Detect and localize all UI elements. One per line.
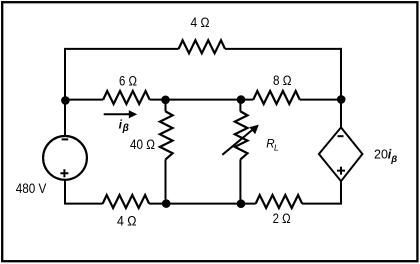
resistor 6Ω (103, 91, 149, 104)
plus sign in diamond (337, 167, 345, 175)
wire middle-center segment (150, 99, 254, 101)
wire RL branch upper lead (239, 100, 241, 112)
node dot 40Ω top (161, 96, 170, 105)
RL variable arrow (222, 125, 258, 155)
current arrow i_beta (104, 110, 138, 118)
wire top-right segment (225, 48, 341, 50)
svg-text:2 Ω: 2 Ω (273, 211, 291, 226)
node dot 40Ω bottom (162, 199, 171, 208)
wire 40Ω branch upper lead (165, 100, 167, 112)
dependent source 20i_beta diamond (319, 127, 363, 181)
resistor 2Ω (256, 195, 302, 208)
svg-text:β: β (390, 154, 397, 165)
resistor 4Ω bottom (103, 195, 149, 208)
wire left vertical upper (64, 48, 66, 136)
wire middle-left lead (65, 99, 103, 101)
label R_L (266, 139, 279, 153)
node dot RL bottom (237, 199, 246, 208)
svg-text:4 Ω: 4 Ω (117, 214, 137, 229)
resistor 40Ω (160, 111, 173, 159)
voltage source 480V circle (43, 136, 87, 180)
wire right vertical upper (340, 48, 342, 128)
node dot right-middle (337, 95, 346, 104)
svg-text:β: β (122, 123, 129, 134)
resistor RL variable (235, 111, 248, 159)
wire top-left segment (65, 48, 179, 50)
wire bottom-right segment (302, 203, 342, 205)
svg-text:L: L (274, 142, 279, 152)
plus sign in source (60, 169, 68, 177)
label 20i_beta (374, 148, 397, 165)
svg-text:4 Ω: 4 Ω (191, 15, 210, 30)
label i_beta (119, 117, 129, 134)
resistor 4Ω top (179, 40, 225, 53)
svg-text:8 Ω: 8 Ω (273, 73, 292, 88)
wire middle-right segment (300, 99, 341, 101)
wire 40Ω branch lower lead (165, 159, 167, 203)
svg-text:40 Ω: 40 Ω (130, 137, 155, 152)
wire bottom-center segment (149, 203, 256, 205)
wire left vertical lower (64, 180, 66, 204)
wire RL branch lower lead (239, 159, 241, 203)
node dot RL top (237, 95, 246, 104)
resistor 8Ω (253, 91, 299, 104)
minus sign in source (62, 138, 69, 140)
wire bottom-left lead (64, 203, 103, 205)
svg-text:6 Ω: 6 Ω (119, 73, 137, 88)
wire right vertical lower (340, 181, 342, 203)
minus sign in diamond (338, 135, 344, 137)
svg-text:480 V: 480 V (16, 181, 47, 196)
node dot left-middle (61, 96, 70, 105)
svg-text:20: 20 (374, 148, 388, 162)
